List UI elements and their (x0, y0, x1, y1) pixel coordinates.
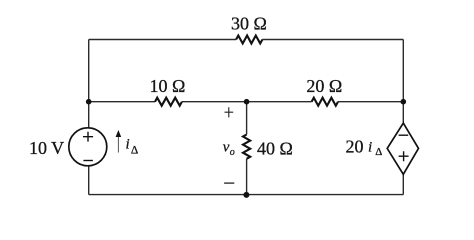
wire left vertical upper (88, 40, 90, 128)
wire bottom (89, 194, 404, 196)
resistor R4 40 ohm (243, 135, 250, 159)
voltage source minus sign (83, 160, 93, 162)
node A left middle (86, 99, 92, 105)
svg-text:v: v (223, 140, 230, 156)
vo minus sign (224, 182, 234, 184)
wire center vertical lower (246, 159, 248, 195)
wire middle left segment (89, 101, 155, 103)
wire top right segment (262, 39, 403, 41)
svg-text:10 Ω: 10 Ω (150, 76, 186, 96)
node B center middle (244, 99, 250, 105)
svg-text:Δ: Δ (375, 146, 382, 158)
svg-text:30 Ω: 30 Ω (231, 14, 267, 34)
wire top left segment (89, 39, 236, 41)
wire left vertical lower (88, 166, 90, 195)
dependent source plus sign (399, 151, 409, 161)
svg-text:10 V: 10 V (29, 138, 64, 158)
svg-text:o: o (230, 147, 235, 158)
current arrow i-delta (117, 136, 119, 153)
wire middle right segment (338, 101, 403, 103)
voltage source V1 circle (69, 128, 107, 166)
voltage source plus sign (83, 132, 93, 142)
svg-text:40 Ω: 40 Ω (257, 139, 293, 159)
wire middle center segment (182, 101, 312, 103)
svg-text:20 Ω: 20 Ω (306, 76, 342, 96)
resistor R2 10 ohm (155, 98, 182, 106)
svg-text:i: i (126, 136, 130, 152)
wire center vertical upper (246, 102, 248, 135)
dependent source minus sign (399, 134, 409, 136)
dependent source U1 diamond (387, 123, 418, 174)
node D center bottom (243, 192, 249, 198)
vo plus sign (225, 107, 234, 117)
node C right middle (401, 99, 407, 105)
resistor R3 20 ohm (312, 98, 338, 106)
svg-text:Δ: Δ (131, 145, 138, 157)
wire right vertical upper (402, 40, 404, 124)
resistor R1 30 ohm (236, 36, 262, 44)
svg-text:20 i: 20 i (346, 137, 373, 157)
wire right vertical lower (402, 174, 404, 194)
